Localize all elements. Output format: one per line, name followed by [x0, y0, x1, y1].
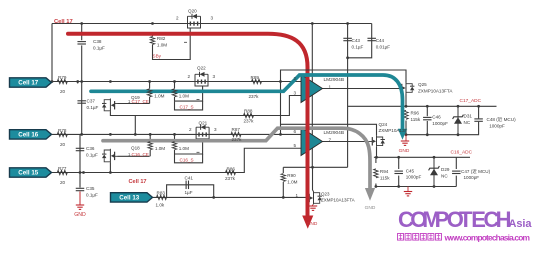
svg-text:Q22: Q22: [197, 65, 206, 70]
svg-text:C48 (近 MCU): C48 (近 MCU): [487, 116, 517, 123]
svg-text:Cell 16: Cell 16: [18, 132, 39, 139]
wire Q24 source down: [376, 147, 378, 158]
net label Cell17 top: [54, 19, 73, 25]
resistor R81: [174, 82, 176, 102]
resistor R80 zigzag: [147, 89, 151, 97]
resistor R79: [57, 79, 67, 83]
wire vertical x=52: [51, 24, 53, 82]
capacitor C41: [186, 181, 188, 190]
wire Q23 drain up: [313, 167, 314, 191]
svg-text:1: 1: [296, 193, 299, 198]
svg-text:Asia: Asia: [509, 218, 533, 230]
resistor R77: [57, 170, 67, 174]
svg-text:Q25: Q25: [418, 82, 427, 87]
node row2 junctions: [80, 133, 282, 136]
logo COMPOTECH Asia: [398, 207, 532, 232]
svg-text:ZXMP10A13FTA: ZXMP10A13FTA: [321, 197, 355, 202]
wire row2 Cell16 y=134.4: [52, 133, 302, 135]
svg-text:2: 2: [189, 127, 192, 132]
svg-text:C47 (近 MCU): C47 (近 MCU): [461, 168, 491, 175]
svg-text:1µF: 1µF: [185, 190, 193, 195]
wire C45 stems: [398, 157, 400, 186]
label R82 1.0M: [157, 36, 167, 47]
svg-text:20: 20: [60, 89, 66, 94]
capacitor C44: [367, 38, 376, 40]
label Q23: [296, 192, 355, 203]
resistor R84: [149, 134, 151, 156]
capacitor C45: [394, 171, 403, 173]
svg-text:R94: R94: [380, 169, 389, 174]
label R90 1.0M: [287, 173, 297, 184]
node Cell17 tap: [10, 78, 52, 87]
svg-text:C46: C46: [432, 115, 441, 120]
wire R90 bias net y=167.3: [283, 166, 347, 168]
svg-text:3: 3: [213, 74, 216, 79]
label Q24: [379, 122, 408, 133]
label U2 pins: [294, 129, 345, 148]
svg-text:C37: C37: [87, 99, 96, 104]
wire Cell13 row y=197.4: [152, 196, 307, 198]
svg-text:Q20: Q20: [188, 9, 197, 14]
node row3 junctions: [79, 171, 112, 174]
label R78 20: [58, 128, 67, 147]
svg-text:C17_ADC: C17_ADC: [460, 98, 482, 104]
label C44 0.01uF: [376, 38, 391, 49]
wire row3 Cell15 y=172.5: [52, 148, 302, 172]
svg-text:R77: R77: [58, 166, 67, 171]
label C38 0.1uF: [93, 39, 105, 50]
svg-text:GND: GND: [365, 205, 376, 211]
label Q18: [131, 145, 140, 150]
svg-text:2: 2: [176, 16, 179, 21]
svg-text:R78: R78: [58, 128, 67, 133]
label R86 237k: [225, 166, 236, 181]
svg-text:Q18: Q18: [131, 145, 140, 150]
svg-text:GND: GND: [307, 221, 318, 227]
label R80 value: [154, 93, 164, 98]
svg-text:1.0M: 1.0M: [157, 43, 167, 48]
wire cap chain row2-row3: [79, 134, 81, 172]
svg-text:1000pF: 1000pF: [464, 175, 480, 180]
label C43 0.1uF: [352, 38, 364, 49]
resistor R83: [157, 195, 167, 199]
resistor R82: [150, 37, 154, 45]
svg-text:2: 2: [188, 74, 191, 79]
resistor R90: [281, 174, 285, 182]
wire Q18 source to row3: [109, 163, 111, 173]
transistor Q22: [195, 72, 208, 86]
capacitor C48: [474, 119, 483, 121]
wire Q18 gate net: [118, 155, 150, 157]
net label C17_S: [180, 104, 194, 109]
svg-text:5: 5: [294, 143, 297, 148]
wire op1 feedback top redraw: [281, 69, 407, 71]
svg-text:0.1µF: 0.1µF: [93, 45, 105, 50]
svg-text:1.0M: 1.0M: [179, 93, 189, 98]
svg-text:C43: C43: [352, 38, 361, 43]
label R94 115k: [380, 169, 390, 180]
wire C44 column x=371.7: [348, 24, 372, 58]
svg-text:20: 20: [60, 180, 66, 185]
svg-text:R89: R89: [251, 75, 260, 80]
resistor R86: [226, 170, 236, 174]
ground red below Q23: [309, 205, 317, 211]
net label 1 C17_CE: [128, 99, 149, 104]
resistor R89: [252, 79, 262, 83]
wire op2 input link x=280.5: [280, 82, 282, 135]
svg-text:R82: R82: [157, 36, 166, 41]
wire Cell17 top net y=23.5: [52, 23, 372, 25]
label C48 1000pF: [487, 116, 517, 128]
wire R90 stems: [282, 167, 284, 197]
svg-text:C41: C41: [185, 176, 194, 181]
svg-text:6: 6: [294, 129, 297, 134]
label C37 0.1uF: [87, 99, 99, 110]
svg-text:0.1µF: 0.1µF: [352, 44, 364, 49]
svg-text:Q24: Q24: [379, 122, 388, 127]
svg-text:Cell 17: Cell 17: [18, 80, 39, 87]
svg-text:C17_S: C17_S: [180, 104, 194, 109]
svg-text:3: 3: [294, 90, 297, 95]
label D29 NC: [441, 167, 450, 178]
svg-text:3: 3: [211, 16, 214, 21]
wire op2 output to Q24 gate: [323, 141, 368, 143]
wire cap chain row1-row2: [81, 82, 83, 135]
wire C17_ADC net y=106.3: [348, 105, 497, 107]
label GND below C35: [74, 212, 86, 218]
wire R82 gate loop: [153, 28, 191, 60]
svg-text:www.compotechasia.com: www.compotechasia.com: [444, 232, 531, 242]
thick teal net to GND arrow: [91, 75, 407, 140]
label C46 1000pF: [432, 115, 448, 126]
svg-text:GND: GND: [74, 212, 86, 218]
svg-text:1.0M: 1.0M: [155, 146, 165, 151]
thick red net to GND arrow: [68, 34, 313, 229]
transistor Q24: [367, 136, 385, 147]
wire op1 output to Q25 gate: [323, 88, 400, 90]
node Cell13 tap: [111, 193, 153, 202]
svg-text:115k: 115k: [380, 175, 390, 180]
net label C16_ADC: [451, 150, 473, 156]
wire C16_ADC net y=157.3: [374, 156, 470, 158]
label Q20 pins: [176, 9, 214, 21]
svg-text:1000pF: 1000pF: [489, 123, 505, 128]
svg-text:0.1µF: 0.1µF: [86, 152, 98, 157]
diode D29: [429, 157, 440, 186]
svg-text:1.0M: 1.0M: [287, 179, 297, 184]
svg-text:LM2904B: LM2904B: [324, 130, 345, 136]
svg-text:Cell 17: Cell 17: [129, 179, 147, 185]
label Q19: [131, 95, 140, 100]
svg-text:C16_S: C16_S: [180, 157, 194, 162]
svg-text:GND: GND: [399, 148, 410, 154]
label R87 237k: [232, 127, 243, 142]
nc mark ch2: [197, 151, 200, 153]
svg-text:Cell 15: Cell 15: [18, 170, 39, 177]
resistor R78: [57, 132, 67, 136]
label R84 value: [155, 146, 165, 151]
transistor Q19: [102, 99, 118, 113]
svg-text:1: 1: [329, 84, 332, 89]
label GND at teal arrow: [399, 148, 410, 154]
label R83 1.0k: [156, 190, 166, 207]
ground red below rail2: [404, 187, 412, 196]
resistor R87: [231, 132, 241, 136]
resistor R84 zigzag: [148, 142, 152, 150]
svg-text:1.0k: 1.0k: [156, 203, 165, 208]
capacitor C35: [76, 188, 85, 190]
svg-text:R96: R96: [411, 111, 420, 116]
wire Q19 source / R88 net y=115.5: [110, 96, 301, 116]
svg-text:R90: R90: [287, 173, 296, 178]
svg-text:3: 3: [214, 127, 217, 132]
node ADC1 junctions: [405, 105, 480, 108]
wire row1 Cell17 y=81.5: [52, 81, 302, 83]
svg-text:237k: 237k: [232, 137, 243, 142]
label R96 115k: [411, 111, 421, 122]
label R88 237k: [244, 109, 255, 124]
capacitor C46: [423, 117, 432, 119]
ground at teal arrow: [401, 135, 409, 146]
resistor R85 zigzag: [172, 142, 176, 150]
svg-text:0.1µF: 0.1µF: [87, 105, 99, 110]
svg-text:ZXMP10A13F: ZXMP10A13F: [379, 128, 408, 133]
svg-text:C45: C45: [406, 168, 415, 173]
svg-text:20: 20: [60, 142, 66, 147]
wire Q25 source down: [405, 94, 407, 107]
label R81 value: [179, 93, 189, 98]
wire op2 feedback loop y=124.3: [281, 124, 377, 136]
wire bias column x=312.3: [311, 24, 313, 168]
label Q25: [418, 82, 453, 93]
svg-text:Q23: Q23: [321, 192, 330, 197]
label C41 1uF: [185, 176, 194, 196]
svg-text:D31: D31: [464, 114, 473, 119]
label GND at red arrow: [307, 221, 318, 227]
svg-text:1.0M: 1.0M: [154, 93, 164, 98]
svg-text:C44: C44: [376, 38, 385, 43]
wire filter1 bottom rail y=134.7: [406, 121, 479, 135]
label C35 0.1uF: [86, 186, 98, 197]
wire C43 column x=347.6: [347, 24, 349, 168]
capacitor C36: [76, 148, 85, 150]
resistor R81 zigzag: [172, 89, 176, 97]
capacitor C38: [77, 24, 86, 82]
label D31 NC: [464, 114, 473, 125]
wire filter2 bottom rail y=186.5: [376, 186, 456, 188]
wire link x=135.3: [134, 116, 136, 135]
transistor Q20: [188, 14, 201, 28]
wire C17_S gate box: [175, 86, 203, 110]
label C36 0.1uF: [86, 146, 98, 157]
transistor Q18: [102, 149, 118, 163]
svg-text:Cell 13: Cell 13: [119, 195, 140, 202]
wire R94 stems: [375, 157, 377, 186]
node Cell15 tap: [10, 168, 52, 177]
label U1 pins: [294, 76, 345, 95]
svg-text:2: 2: [294, 76, 297, 81]
svg-text:237k: 237k: [225, 176, 236, 181]
net label 1 C16_CE: [128, 152, 149, 157]
svg-text:115k: 115k: [411, 117, 421, 122]
svg-text:C16_CE: C16_CE: [132, 152, 149, 157]
svg-text:NC: NC: [464, 120, 471, 125]
svg-text:LM2904B: LM2904B: [324, 77, 345, 83]
transistor Q21: [196, 125, 209, 139]
node cell13 junctions: [212, 196, 284, 199]
label C45 1000pF: [406, 168, 422, 179]
label R89 237k: [249, 75, 260, 99]
label GND at gray arrow: [365, 205, 376, 211]
svg-text:C17_CE: C17_CE: [132, 99, 149, 104]
label C47 1000pF: [461, 168, 491, 180]
node bias junction: [311, 166, 314, 169]
logo tagline: [398, 232, 531, 242]
svg-text:1000pF: 1000pF: [432, 121, 448, 126]
resistor R85: [174, 134, 176, 154]
transistor Q25: [399, 83, 414, 94]
resistor R94: [374, 169, 378, 178]
svg-text:0.1µF: 0.1µF: [86, 192, 98, 197]
op-amp U1 LM2904B: [301, 75, 323, 103]
label R85 value: [179, 146, 189, 151]
capacitor C47: [452, 171, 461, 173]
label R79 20: [58, 75, 67, 94]
nc mark Q20: [184, 41, 187, 43]
svg-text:R79: R79: [58, 75, 67, 80]
nc mark ch1: [197, 98, 200, 100]
svg-text:R88: R88: [244, 109, 253, 114]
svg-text:R83: R83: [157, 190, 166, 195]
svg-text:Cell 17: Cell 17: [54, 19, 73, 25]
svg-text:Q21: Q21: [199, 120, 208, 125]
capacitor C37: [77, 101, 86, 103]
svg-text:R86: R86: [227, 166, 236, 171]
wire C48 top: [478, 106, 480, 118]
svg-text:SBy: SBy: [153, 53, 162, 58]
capacitor C43: [343, 38, 352, 40]
svg-text:0.01µF: 0.01µF: [376, 44, 391, 49]
net label SBy: [153, 53, 162, 58]
op-amp U2 LM2904B: [301, 128, 323, 156]
svg-text:ZXMP10A13FTA: ZXMP10A13FTA: [418, 88, 453, 93]
wire C41 loop: [167, 185, 214, 198]
svg-text:237k: 237k: [244, 118, 255, 123]
wire stub x=77.7: [77, 82, 79, 84]
svg-text:D29: D29: [441, 167, 450, 172]
transistor Q23: [308, 192, 322, 205]
diode D31: [453, 106, 464, 134]
node top-net junctions: [80, 22, 349, 59]
node row1 junctions: [51, 80, 282, 83]
wire C16_S gate box: [175, 139, 203, 163]
node rail1 junctions: [405, 133, 460, 136]
resistor R80: [149, 82, 151, 104]
svg-text:C38: C38: [93, 39, 102, 44]
wire C47 stems: [455, 157, 457, 186]
wire cap chain row3-gnd: [79, 173, 81, 188]
label R77 20: [58, 166, 67, 185]
svg-text:NC: NC: [441, 173, 448, 178]
resistor R96: [404, 110, 408, 119]
resistor R88: [244, 113, 254, 117]
node ADC2 junctions: [375, 156, 435, 159]
wire Q19 gate net: [118, 103, 150, 105]
label Q22 pins: [188, 65, 216, 79]
svg-text:C36: C36: [86, 146, 95, 151]
ground below C35: [76, 192, 84, 210]
svg-text:1.0M: 1.0M: [179, 146, 189, 151]
net label Cell17 bottom: [129, 179, 147, 185]
svg-text:C16_ADC: C16_ADC: [451, 150, 473, 156]
net label C17_ADC: [460, 98, 482, 104]
node Cell16 tap: [10, 130, 52, 139]
svg-text:7: 7: [329, 137, 332, 142]
wire op1 feedback loop y=70: [281, 70, 407, 83]
net label C16_S: [180, 157, 194, 162]
svg-text:C35: C35: [86, 186, 95, 191]
svg-text:237k: 237k: [249, 94, 260, 99]
label Q21 pins: [189, 120, 217, 132]
svg-text:R87: R87: [232, 127, 241, 132]
wire C46 stems: [426, 106, 428, 134]
node rail2 junctions: [375, 185, 436, 188]
thick gray net to GND arrow: [103, 128, 375, 201]
svg-text:1000pF: 1000pF: [406, 175, 422, 180]
